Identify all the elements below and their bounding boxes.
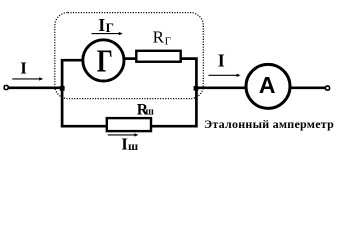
wire: node A up and right to galvanometer [62, 60, 84, 88]
svg-text:А: А [259, 72, 276, 98]
wire: galvanometer to resistor RG [123, 57, 140, 60]
wire: node B to ammeter [196, 86, 247, 89]
shunt resistor Rsh [107, 118, 151, 131]
svg-text:ш: ш [145, 106, 154, 117]
svg-text:Г: Г [165, 36, 171, 48]
svg-text:Г: Г [97, 44, 113, 80]
wire: left terminal to node A [9, 86, 64, 89]
svg-text:Эталонный амперметр: Эталонный амперметр [204, 117, 334, 131]
svg-text:Г: Г [106, 20, 114, 35]
wire: shunt resistor to node B [148, 88, 196, 126]
left terminal [4, 86, 8, 90]
wire: node A down and right to shunt resistor [62, 88, 110, 126]
arrow under right I label [209, 74, 238, 76]
node B (right junction) [194, 86, 199, 91]
dashed enclosure box [55, 13, 204, 99]
right terminal [326, 86, 330, 90]
svg-text:I: I [98, 15, 105, 35]
resistor RG [136, 51, 180, 62]
wire: ammeter to right terminal [289, 86, 326, 89]
svg-text:I: I [218, 51, 225, 71]
arrow above Ish label [108, 134, 136, 136]
svg-text:I: I [20, 58, 27, 77]
node A (left junction) [60, 86, 65, 91]
svg-text:ш: ш [128, 139, 138, 153]
galvanometer [83, 40, 124, 81]
ammeter A [246, 64, 290, 108]
svg-text:R: R [153, 27, 165, 46]
wire: resistor RG right side down to node B [178, 59, 196, 88]
arrow under left I label [12, 78, 40, 80]
